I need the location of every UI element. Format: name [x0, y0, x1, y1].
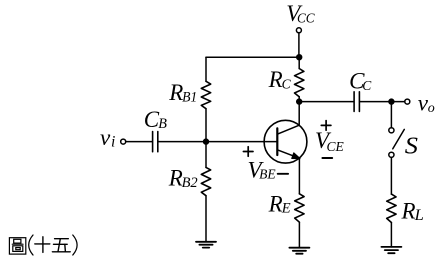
label VCE plus — [321, 121, 331, 131]
glyph 十 — [35, 237, 50, 253]
capacitor CC — [354, 92, 359, 112]
transistor Q1 — [264, 102, 307, 163]
wire — [390, 158, 392, 195]
wire — [205, 109, 207, 142]
resistor RL — [387, 194, 396, 222]
node vo terminal — [405, 99, 410, 104]
glyph ( — [29, 235, 33, 255]
label VCE minus — [322, 157, 332, 159]
wire — [299, 101, 353, 103]
wire — [390, 102, 392, 128]
node VCC terminal — [296, 28, 301, 33]
ground (RB2) — [196, 242, 216, 248]
ground (RL) — [381, 247, 401, 253]
switch S — [389, 128, 405, 158]
wire — [390, 223, 392, 247]
wire — [126, 141, 152, 143]
wire — [298, 222, 300, 248]
capacitor CB — [153, 132, 158, 152]
wire — [298, 158, 300, 193]
ground (RE) — [289, 248, 309, 254]
resistor RB1 — [201, 81, 210, 108]
glyph ) — [73, 235, 77, 255]
label figure caption 圖(十五) — [9, 235, 77, 255]
label VBE minus — [278, 173, 288, 175]
resistor RC — [295, 57, 304, 101]
label VBE plus — [243, 147, 253, 157]
node junction top — [296, 54, 302, 60]
wire — [360, 101, 405, 103]
resistor RB2 — [201, 167, 210, 195]
wire — [158, 141, 277, 143]
glyph 圖 — [9, 238, 25, 254]
node junction output — [388, 98, 394, 104]
svg-text:S: S — [405, 133, 418, 160]
wire — [205, 57, 207, 81]
wire — [298, 33, 300, 57]
resistor RE — [295, 194, 304, 222]
node junction collector — [296, 98, 302, 104]
wire — [206, 56, 299, 58]
wire — [205, 196, 207, 242]
node junction base — [203, 138, 209, 144]
node vi terminal — [121, 139, 126, 144]
wire — [205, 142, 207, 168]
glyph 五 — [52, 239, 70, 252]
